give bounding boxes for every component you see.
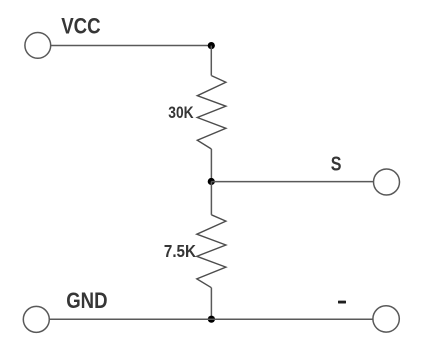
terminal minus: [373, 306, 399, 332]
svg-text:S: S: [331, 153, 342, 176]
terminal VCC: [25, 33, 51, 59]
svg-text:VCC: VCC: [61, 14, 100, 39]
wire node S to terminal S: [211, 181, 373, 183]
terminal GND: [23, 306, 49, 332]
wire node A to R1: [210, 46, 212, 76]
svg-text:7.5K: 7.5K: [164, 241, 196, 261]
node S (junction dot): [208, 178, 215, 185]
wire VCC to node A: [51, 45, 212, 47]
resistor R2 7.5K: [197, 215, 226, 288]
wire R1 to node S: [210, 149, 212, 182]
svg-text:GND: GND: [66, 288, 107, 313]
wire GND to node B to terminal minus: [49, 318, 373, 320]
terminal S: [374, 169, 400, 195]
svg-text:30K: 30K: [168, 103, 194, 122]
resistor R1 30K: [197, 76, 226, 149]
wire R2 to node B: [210, 288, 212, 320]
label minus: [338, 301, 346, 304]
node A (junction dot): [208, 42, 215, 49]
node B (junction dot): [208, 316, 215, 323]
wire node S to R2: [210, 182, 212, 215]
